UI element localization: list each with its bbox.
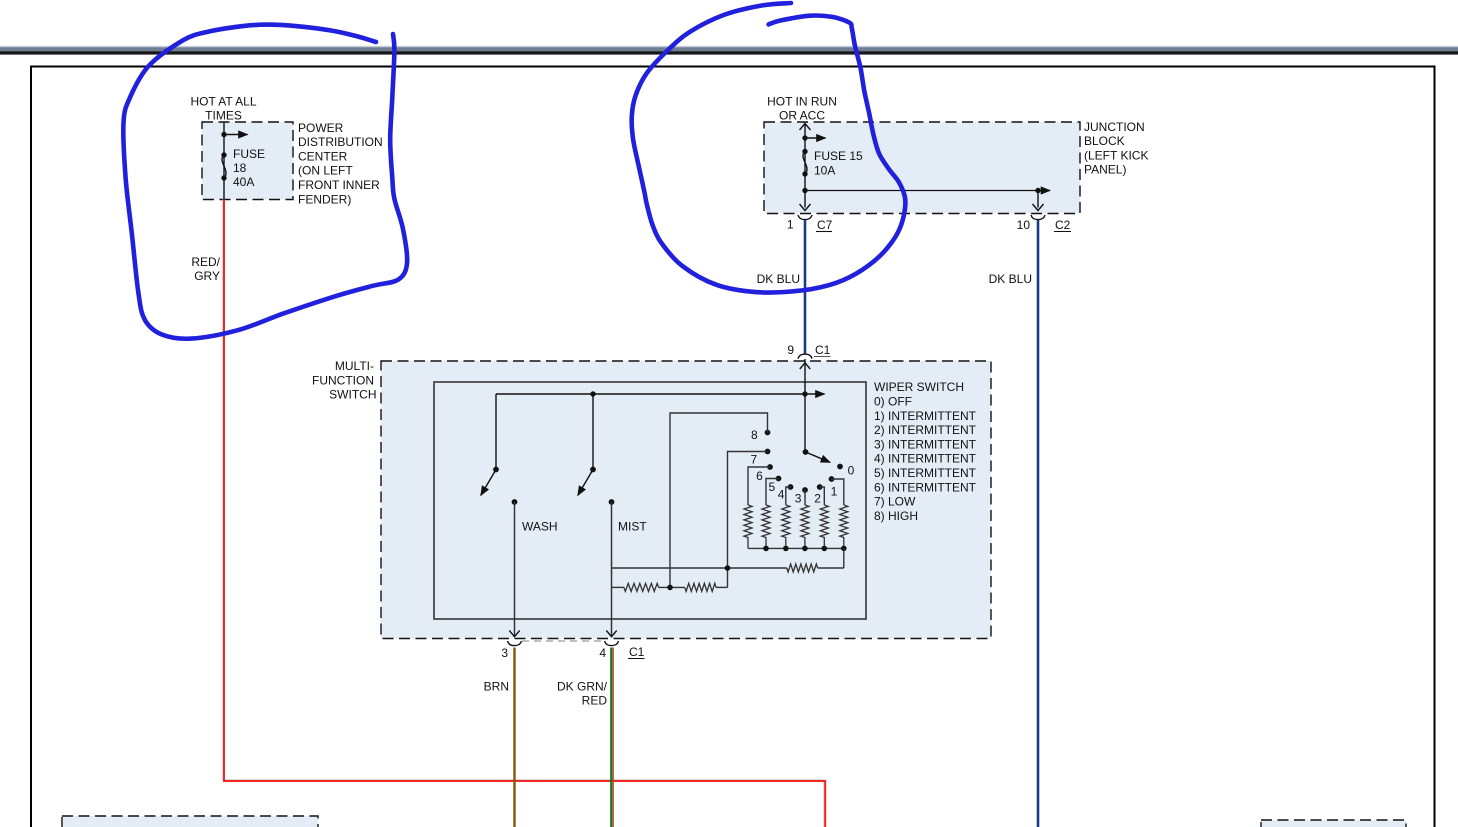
wire RED/GRY (223, 200, 824, 827)
junction block box (764, 122, 1080, 214)
wire DK BLU left (804, 220, 807, 355)
wire bus down to mid line (843, 548, 845, 568)
connector pin 10 C2 (1031, 215, 1045, 220)
top grey band (0, 46, 1458, 47)
svg-text:C1: C1 (629, 645, 645, 659)
svg-text:40A: 40A (233, 175, 254, 189)
svg-text:6: 6 (756, 469, 763, 483)
svg-text:10A: 10A (814, 164, 835, 178)
svg-text:C1: C1 (815, 343, 831, 357)
wire contact 2 lead (820, 487, 825, 505)
annotation blue loop right (632, 3, 906, 293)
node dot JB right (1035, 188, 1040, 193)
svg-text:C2: C2 (1055, 218, 1071, 232)
svg-text:7) LOW: 7) LOW (874, 495, 916, 509)
svg-text:FENDER): FENDER) (298, 192, 351, 206)
contact 8 (765, 430, 771, 436)
wash switch (495, 394, 497, 470)
svg-text:3) INTERMITTENT: 3) INTERMITTENT (874, 437, 977, 451)
wire JB horizontal (805, 190, 1038, 192)
svg-text:2: 2 (814, 492, 821, 506)
contact 2 (817, 484, 823, 490)
svg-text:WASH: WASH (522, 520, 558, 534)
inner switch box (434, 382, 866, 619)
wire into switch with up arrow (804, 359, 806, 452)
svg-text:(LEFT KICK: (LEFT KICK (1084, 148, 1148, 162)
svg-text:POWER: POWER (298, 121, 344, 135)
svg-text:FUSE 15: FUSE 15 (814, 149, 863, 163)
svg-text:C7: C7 (817, 218, 833, 232)
wire contact 7 branch (728, 452, 768, 588)
svg-text:RED: RED (582, 694, 608, 708)
resistor R5 (820, 505, 828, 548)
wire contact 8 to resistor net (670, 413, 768, 587)
svg-text:1: 1 (787, 218, 794, 232)
svg-text:5) INTERMITTENT: 5) INTERMITTENT (874, 466, 977, 480)
contact 1 (829, 476, 835, 482)
wire DK BLU right (1037, 220, 1040, 827)
svg-text:5: 5 (769, 480, 776, 494)
svg-text:0) OFF: 0) OFF (874, 395, 912, 409)
svg-text:4: 4 (599, 646, 606, 660)
node dot mist branch (590, 391, 595, 396)
svg-text:DK GRN/: DK GRN/ (557, 680, 608, 694)
annotation blue loop left (123, 25, 407, 339)
svg-text:2) INTERMITTENT: 2) INTERMITTENT (874, 423, 977, 437)
connector pin 9 C1 (798, 354, 812, 359)
svg-text:8: 8 (751, 428, 758, 442)
wire mist down (611, 502, 613, 636)
node dot JB out (802, 188, 807, 193)
contact 4 (788, 484, 794, 490)
svg-text:SWITCH: SWITCH (329, 388, 376, 402)
wire PDC branch arrow (224, 134, 248, 136)
svg-text:DK BLU: DK BLU (757, 272, 800, 286)
svg-text:OR ACC: OR ACC (779, 108, 825, 122)
wire JB vertical with up arrow (804, 124, 806, 208)
wire JB branch arrow (805, 137, 826, 139)
resistor R1 (744, 505, 752, 548)
svg-text:BLOCK: BLOCK (1084, 134, 1125, 148)
resistor R6 (840, 505, 848, 548)
node dot mid (725, 565, 731, 571)
contact 5 (776, 476, 782, 482)
resistor bottom bus (748, 547, 844, 549)
svg-text:HOT IN RUN: HOT IN RUN (767, 94, 837, 108)
svg-text:BRN: BRN (484, 680, 509, 694)
resistor R2 (762, 505, 770, 548)
power distribution center box (202, 122, 293, 200)
wire mid horizontal line (612, 567, 787, 569)
svg-text:JUNCTION: JUNCTION (1084, 120, 1145, 134)
fuse F15 (802, 149, 807, 154)
resistor R4 (801, 505, 809, 548)
wire JB right arrow (1038, 190, 1050, 192)
svg-text:FUSE: FUSE (233, 147, 265, 161)
connector pin 3 (508, 641, 522, 646)
wire top horizontal with arrow (496, 393, 825, 395)
svg-text:RED/: RED/ (191, 255, 220, 269)
svg-text:18: 18 (233, 161, 247, 175)
svg-text:DISTRIBUTION: DISTRIBUTION (298, 135, 383, 149)
connector pin 1 C7 (798, 215, 812, 220)
wire JB down arrows (800, 204, 811, 211)
wire BRN (513, 648, 515, 827)
svg-text:HOT AT ALL: HOT AT ALL (190, 94, 256, 108)
svg-text:(ON LEFT: (ON LEFT (298, 164, 353, 178)
resistor R3 (782, 505, 790, 548)
wire wash down (514, 502, 516, 636)
wiper rotary pivot (803, 449, 809, 455)
node dot wiper feed (802, 391, 807, 396)
svg-text:7: 7 (751, 453, 758, 467)
node dot PDC feed (221, 132, 226, 137)
resistor R8 (624, 583, 659, 591)
svg-text:WIPER SWITCH: WIPER SWITCH (874, 380, 964, 394)
contact 7 (765, 449, 771, 455)
resistor R7 (787, 564, 818, 572)
svg-text:6) INTERMITTENT: 6) INTERMITTENT (874, 480, 977, 494)
svg-text:DK BLU: DK BLU (989, 272, 1032, 286)
node dot lower (667, 585, 673, 591)
svg-text:PANEL): PANEL) (1084, 163, 1126, 177)
contact 6 (767, 464, 773, 470)
wire contact 3 lead (804, 490, 806, 505)
svg-text:4) INTERMITTENT: 4) INTERMITTENT (874, 452, 977, 466)
wire contact 5 lead (766, 479, 779, 506)
wire contact 4 lead (786, 487, 791, 505)
resistor R9 (685, 583, 716, 591)
svg-text:3: 3 (501, 646, 508, 660)
svg-text:10: 10 (1017, 218, 1031, 232)
mist switch (592, 394, 594, 470)
svg-text:8) HIGH: 8) HIGH (874, 509, 918, 523)
contact 0 (837, 464, 843, 470)
svg-text:4: 4 (778, 488, 785, 502)
svg-text:MIST: MIST (618, 520, 647, 534)
bottom left component box (62, 816, 318, 827)
svg-text:CENTER: CENTER (298, 149, 348, 163)
connector bar dashed (522, 640, 604, 642)
wire PDC vertical (223, 122, 225, 200)
multi-function switch box (381, 361, 991, 639)
svg-text:0: 0 (848, 464, 855, 478)
node dot JB feed (802, 135, 807, 140)
connector pin 4 C1 (605, 641, 619, 646)
svg-text:FUNCTION: FUNCTION (312, 373, 374, 387)
svg-text:GRY: GRY (194, 269, 220, 283)
fuse F18 (221, 152, 226, 157)
svg-text:9: 9 (787, 343, 794, 357)
svg-text:1: 1 (831, 485, 838, 499)
wire contact 6 lead (748, 467, 770, 505)
svg-text:1) INTERMITTENT: 1) INTERMITTENT (874, 409, 977, 423)
svg-text:3: 3 (795, 492, 802, 506)
bottom right component box (1261, 820, 1406, 827)
svg-text:TIMES: TIMES (205, 108, 242, 122)
wire DK GRN/RED (612, 648, 614, 827)
svg-text:FRONT INNER: FRONT INNER (298, 178, 380, 192)
wire contact 1 lead (832, 479, 844, 505)
contact 3 (802, 487, 808, 493)
svg-text:MULTI-: MULTI- (335, 359, 374, 373)
wire lower resistor line (612, 586, 624, 588)
